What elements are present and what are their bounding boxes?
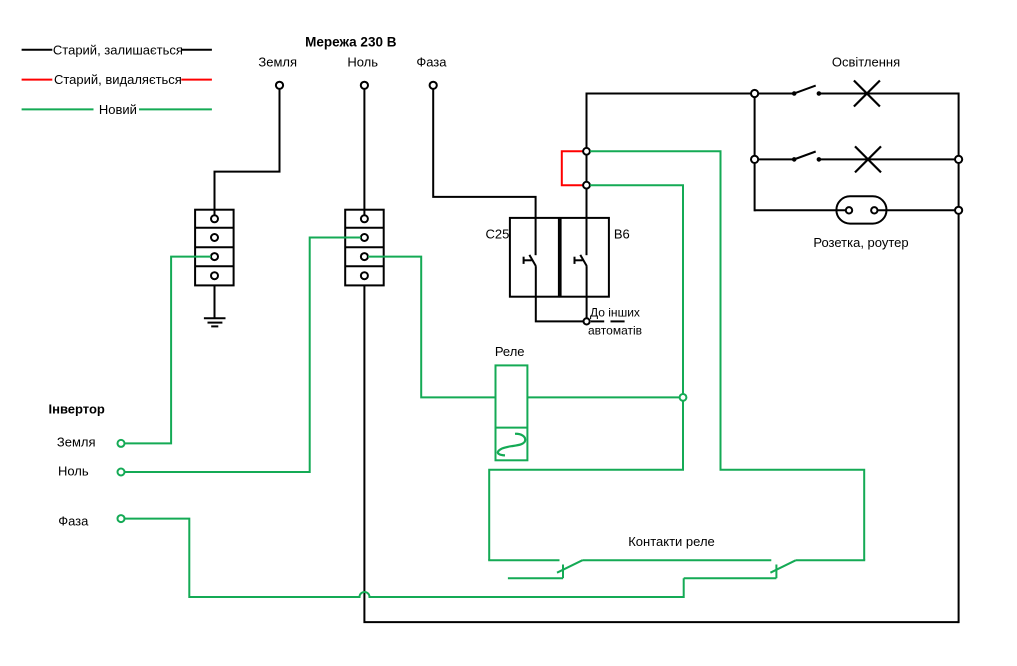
green wire: inverter Ноль to block X2 pin2 <box>125 238 361 473</box>
relay contact K1.2 <box>684 560 866 578</box>
terminal block X2 (Ноль) <box>345 210 384 286</box>
wire: node2 to node1 <box>586 155 588 182</box>
relay node <box>680 394 687 401</box>
X1 pin 1 <box>211 215 218 222</box>
green wire: inverter Земля to block X1 pin3 <box>125 257 212 444</box>
green wire: block X2 pin3 to relay <box>368 257 496 398</box>
switch S1 <box>792 86 820 96</box>
wire: Ноль bottom run to right side <box>364 285 958 622</box>
node: to other breakers <box>584 318 590 324</box>
svg-text:Ноль: Ноль <box>58 464 89 479</box>
green wire: node2 to relay node <box>590 185 683 394</box>
wire stub right of node <box>591 320 625 322</box>
wire: C25 bottom to common node <box>536 266 583 321</box>
breaker B6 box <box>561 218 609 297</box>
X2 pin 4 <box>361 272 368 279</box>
svg-text:C25: C25 <box>485 227 509 242</box>
lighting branch 2 wire <box>758 158 955 160</box>
terminal Фаза <box>430 82 437 89</box>
relay K1 box <box>496 365 528 460</box>
wire: Ноль drop to terminal block X2 <box>363 89 365 215</box>
node 1 <box>583 148 590 155</box>
svg-text:Фаза: Фаза <box>416 54 447 69</box>
X2 pin 2 <box>361 234 368 241</box>
svg-text:Фаза: Фаза <box>58 514 89 529</box>
ground <box>204 318 226 326</box>
wire: B6 bottom to common node <box>586 266 588 318</box>
breaker C25 box <box>510 218 559 297</box>
socket pin right <box>871 207 877 213</box>
svg-text:До інших: До інших <box>590 306 640 320</box>
legend line: old removed (red) <box>22 79 212 81</box>
X1 pin 2 <box>211 234 218 241</box>
node 2 <box>583 182 590 189</box>
svg-text:Освітлення: Освітлення <box>832 55 900 70</box>
breaker B6 contact <box>575 218 587 266</box>
svg-text:Інвертор: Інвертор <box>49 401 105 416</box>
inverter terminal Земля <box>118 440 125 447</box>
red jumper between node1 and node2 <box>562 151 583 185</box>
green wire: middle link between contacts <box>583 559 772 561</box>
X2 pin 1 <box>361 215 368 222</box>
wire: left lighting vertical <box>754 97 756 211</box>
svg-text:Контакти реле: Контакти реле <box>628 534 715 549</box>
lighting node left branch2 <box>751 156 758 163</box>
X1 pin 4 <box>211 272 218 279</box>
green wire: relay node down to contact K1.1 <box>489 401 683 560</box>
green wire: relay to relay node <box>527 396 679 398</box>
lighting branch 1 wire <box>758 93 958 95</box>
svg-text:Старий, видаляється: Старий, видаляється <box>54 72 182 87</box>
legend line: new (green) <box>22 108 212 110</box>
lighting node left top <box>751 90 758 97</box>
breaker C25 contact <box>524 218 536 266</box>
wire: Земля drop to terminal block X1 <box>215 89 280 215</box>
green wire: node1 to contact K1.2 <box>590 151 864 560</box>
wire: node1 up and to lighting <box>587 94 752 148</box>
inverter terminal Фаза <box>118 515 125 522</box>
svg-text:Земля: Земля <box>57 435 96 450</box>
svg-text:Земля: Земля <box>258 54 297 69</box>
wire: block X1 to ground <box>214 285 216 318</box>
socket XS1 (розетка) <box>836 196 886 223</box>
svg-text:Реле: Реле <box>495 344 525 359</box>
svg-text:Мережа 230 В: Мережа 230 В <box>305 34 397 49</box>
svg-text:Новий: Новий <box>99 102 137 117</box>
X1 pin 3 <box>211 253 218 260</box>
socket pin left <box>846 207 852 213</box>
terminal block X1 (Земля) <box>195 210 234 286</box>
svg-text:автоматів: автоматів <box>588 324 642 338</box>
X2 pin 3 <box>361 253 368 260</box>
lamp E2 <box>855 146 881 172</box>
socket node right <box>955 207 962 214</box>
relay contact K1.1 <box>488 560 582 578</box>
terminal Земля <box>276 82 283 89</box>
svg-text:B6: B6 <box>614 227 630 242</box>
lighting node right branch2 <box>955 156 962 163</box>
green wire: inverter Фаза bottom run with hop <box>125 519 684 597</box>
svg-text:Старий, залишається: Старий, залишається <box>53 42 183 57</box>
svg-text:Розетка, роутер: Розетка, роутер <box>813 235 908 250</box>
terminal Ноль <box>361 82 368 89</box>
wire: B6 top to node2 <box>586 189 588 218</box>
svg-text:Ноль: Ноль <box>347 54 378 69</box>
lamp E1 <box>854 81 880 107</box>
wire: right vertical main <box>958 93 960 624</box>
socket branch wires <box>755 209 955 211</box>
switch S2 <box>792 152 820 162</box>
relay coil squiggle <box>498 434 525 456</box>
wire: Фаза drop to breaker C25 <box>433 89 535 218</box>
legend line: old stays (black) <box>22 49 212 51</box>
inverter terminal Ноль <box>118 469 125 476</box>
